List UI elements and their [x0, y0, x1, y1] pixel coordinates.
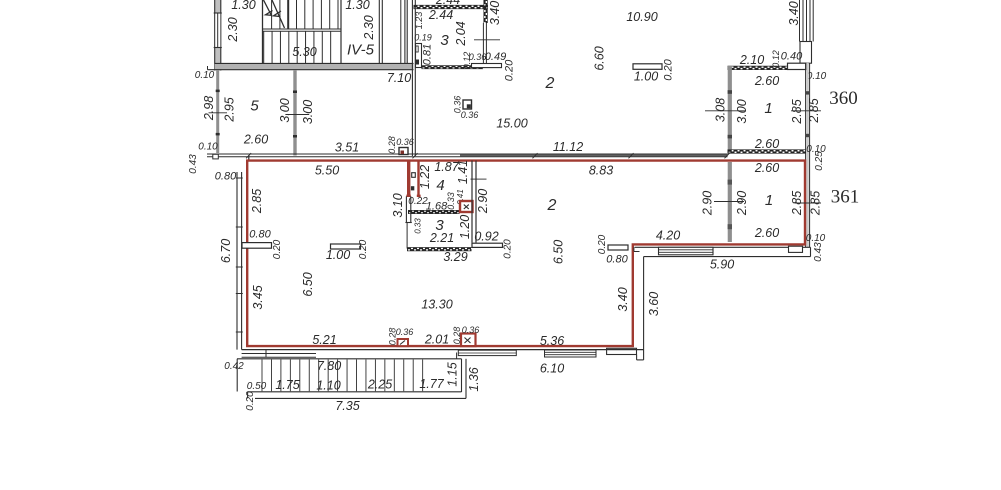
apt360 bottom hatched wall [728, 150, 807, 154]
dim 0.43 right [813, 242, 824, 262]
apt361 r1 leader left [714, 201, 744, 203]
svg-text:2.10: 2.10 [739, 53, 764, 67]
svg-text:5.90: 5.90 [710, 257, 734, 271]
window w5 [545, 350, 597, 357]
svg-text:0.33: 0.33 [446, 192, 456, 210]
svg-text:0.20: 0.20 [503, 59, 515, 81]
svg-text:2.44: 2.44 [435, 0, 460, 7]
wall pier P1 [242, 243, 272, 249]
dim 2.25 [367, 377, 392, 391]
stair direction arrow [264, 0, 285, 28]
svg-text:2.98: 2.98 [202, 96, 216, 121]
svg-text:1.00: 1.00 [326, 248, 350, 262]
dim 5.90 [710, 257, 734, 271]
svg-text:0.40: 0.40 [781, 50, 803, 62]
svg-text:2.01: 2.01 [424, 332, 449, 346]
dim 6.10 [540, 361, 564, 375]
room label 1 apt360 [764, 100, 772, 117]
dim 0.10 left upper [195, 70, 215, 81]
svg-text:2.85: 2.85 [808, 191, 822, 216]
room label 2 main [547, 197, 557, 214]
dim 2.04 [454, 21, 468, 46]
dim 1.15 [445, 362, 459, 386]
dim 3.60 [647, 292, 661, 316]
duct box in room3 [416, 44, 422, 68]
svg-text:7.35: 7.35 [335, 399, 359, 413]
room5 left wall [216, 70, 220, 153]
svg-text:7.80: 7.80 [317, 359, 341, 373]
svg-text:0.20: 0.20 [358, 239, 369, 259]
dim 0.20 P1 [272, 239, 283, 259]
svg-text:0.80: 0.80 [606, 253, 628, 265]
window w2 lower [789, 246, 803, 252]
dim 0.28 S1 [387, 136, 397, 154]
svg-text:360: 360 [829, 88, 858, 109]
dim 2.85 outer 361 [808, 191, 822, 216]
dim 0.33 small [414, 218, 423, 234]
dim 0.36 S1 [396, 137, 414, 147]
dim 5.36 [540, 334, 564, 348]
main wall under rooms [207, 153, 730, 158]
right lower outer wall vertical [643, 257, 645, 360]
svg-text:3.00: 3.00 [735, 99, 749, 123]
svg-text:13.30: 13.30 [421, 297, 452, 311]
svg-text:0.20: 0.20 [503, 239, 514, 259]
dim 1.75 [275, 378, 299, 392]
wall line below red [242, 349, 644, 351]
room label 1 apt361 [765, 192, 773, 209]
dim 1.30 stair right [345, 0, 369, 12]
svg-text:3.40: 3.40 [616, 287, 630, 311]
svg-text:2: 2 [547, 197, 557, 214]
room5 interior wall [293, 71, 297, 156]
dim 2.60 361 bottom [754, 226, 779, 240]
dim 0.81 [421, 44, 433, 65]
dim 6.60 [592, 46, 606, 70]
dim 0.80 window [249, 228, 271, 240]
dim 5.30 stairs [292, 45, 316, 59]
dim 3.00 right [301, 100, 315, 124]
svg-text:2.60: 2.60 [754, 161, 779, 175]
svg-text:0.36: 0.36 [462, 325, 480, 335]
red shaft square S3 [460, 201, 473, 212]
svg-text:2.85: 2.85 [790, 99, 804, 124]
svg-text:0.20: 0.20 [272, 239, 283, 259]
svg-text:6.50: 6.50 [301, 272, 315, 296]
svg-text:3.08: 3.08 [713, 98, 727, 122]
dim 0.19 [414, 32, 432, 42]
stair treads upper flight [272, 0, 338, 29]
svg-text:2.60: 2.60 [243, 132, 268, 146]
svg-text:361: 361 [831, 186, 860, 207]
dim 2.30 stair right [362, 15, 376, 40]
dim 1.68 [426, 200, 448, 212]
room label 4 [436, 177, 444, 194]
svg-text:0.50: 0.50 [247, 381, 267, 392]
room3 block top hatched wall [414, 5, 489, 9]
terrace left step [247, 392, 249, 399]
dim 1.36 [467, 367, 481, 391]
room3 block right wall [483, 0, 487, 65]
window sill w4 [457, 350, 517, 359]
dim 0.28 S4 [387, 328, 397, 346]
svg-text:6.50: 6.50 [551, 240, 565, 264]
door sensor mark lower [411, 186, 414, 190]
room label 5 [250, 97, 259, 114]
dim 0.33 room4 [446, 192, 456, 210]
shaft square S2 [463, 100, 472, 109]
dim 0.20 ledge [503, 59, 515, 81]
dim 6.70 [219, 239, 233, 263]
svg-text:2.21: 2.21 [429, 231, 454, 245]
svg-text:1: 1 [764, 100, 772, 117]
svg-text:1.30: 1.30 [231, 0, 255, 12]
svg-text:5.21: 5.21 [312, 333, 336, 347]
svg-text:2.95: 2.95 [222, 97, 236, 122]
svg-text:3.00: 3.00 [301, 100, 315, 124]
dim 2.44 room3 [428, 8, 453, 22]
wall between stairwell and corridor [379, 0, 382, 64]
dim 3.40 red wall [616, 287, 630, 311]
dim 1.77 [419, 377, 444, 391]
dim 1.30 stair left [231, 0, 255, 12]
dim 7.10 corridor [387, 71, 411, 85]
dim 3.45 [251, 285, 265, 309]
wall pier P3 [608, 245, 628, 250]
dim 3.40 top [488, 1, 502, 25]
dim 2.95 [222, 97, 236, 122]
room label 3 lower [435, 217, 444, 234]
dim 2.30 stair left [226, 17, 240, 42]
window w1 lower [659, 247, 714, 255]
svg-text:2.60: 2.60 [754, 137, 779, 151]
left band lines [242, 350, 316, 358]
svg-text:1.15: 1.15 [445, 362, 459, 386]
svg-text:5.50: 5.50 [315, 163, 339, 177]
svg-text:2.90: 2.90 [735, 191, 749, 216]
dim 0.36 S5 [462, 325, 480, 335]
dim 2.60 apt360 bottom [754, 137, 779, 151]
svg-text:1.23: 1.23 [414, 12, 424, 30]
svg-text:3.29: 3.29 [443, 250, 467, 264]
dim 0.12 top [771, 50, 781, 68]
wall pier top right [633, 64, 662, 70]
dim 2.85 outer 360 [807, 98, 821, 123]
dim 2.60 room5 [243, 132, 268, 146]
building corner bottom right [637, 355, 644, 360]
corridor shaft wall [401, 0, 407, 64]
dim 3.00 left [278, 98, 292, 122]
apt360 dim leader right [791, 110, 821, 112]
dim 0.22 [408, 196, 428, 207]
room3 bottom hatched wall [422, 66, 484, 69]
svg-text:10.90: 10.90 [626, 10, 657, 24]
svg-text:2.30: 2.30 [226, 17, 240, 42]
svg-text:6.70: 6.70 [219, 239, 233, 263]
dim 7.80 [317, 359, 341, 373]
stairwell right wall [340, 0, 342, 64]
svg-text:0.36: 0.36 [396, 137, 414, 147]
svg-text:3.40: 3.40 [488, 1, 502, 25]
dim 15.00 [496, 116, 527, 130]
dim 3.10 [391, 193, 405, 217]
dim 0.20 pier top [662, 58, 674, 80]
terrace top edge [237, 358, 462, 360]
dim 0.80 P3 [606, 253, 628, 265]
svg-text:1.10: 1.10 [316, 378, 340, 392]
apt360 dim leader left [705, 110, 746, 112]
staircase bottom wall [208, 63, 414, 69]
svg-text:2.30: 2.30 [362, 15, 376, 40]
apt360 left wall [728, 66, 732, 154]
dim 7.35 [335, 399, 359, 413]
dim 1.00 pier [634, 69, 658, 83]
dim 0.10 r1 [807, 71, 827, 82]
room4 room3 hatched wall [408, 210, 460, 213]
svg-text:8.83: 8.83 [589, 163, 613, 177]
lower wall left step [634, 247, 640, 251]
svg-text:0.92: 0.92 [474, 229, 498, 243]
svg-text:2: 2 [545, 75, 555, 92]
svg-text:0.43: 0.43 [188, 154, 199, 174]
room label 2 upper [545, 75, 555, 92]
dim 0.36 room3 [469, 52, 487, 62]
svg-text:0.10: 0.10 [195, 70, 215, 81]
svg-text:0.20: 0.20 [597, 234, 608, 254]
top right shaft [800, 0, 814, 63]
svg-text:3: 3 [440, 32, 449, 49]
dim 1.22 [418, 165, 432, 189]
svg-text:5: 5 [250, 97, 259, 114]
ledge under room3 [472, 64, 502, 68]
svg-text:1.22: 1.22 [418, 165, 432, 189]
svg-text:0.36: 0.36 [396, 327, 414, 337]
svg-text:2.90: 2.90 [476, 189, 490, 214]
room label 3 upper [440, 32, 449, 49]
dim 2.85 inner 361 [790, 191, 804, 216]
dim 3.08 [713, 98, 727, 122]
right outer wall [805, 63, 810, 248]
terrace inner bottom [248, 391, 462, 393]
svg-text:5.30: 5.30 [292, 45, 316, 59]
svg-text:0.19: 0.19 [414, 32, 432, 42]
window w3 corner [607, 348, 637, 354]
label IV-5 staircase [347, 41, 375, 58]
dim 0.92 [474, 229, 498, 243]
dim 3.51 [335, 140, 359, 154]
dim 0.49 ledge [485, 51, 506, 63]
svg-text:3.51: 3.51 [335, 140, 359, 154]
dim 0.10 r2 [806, 144, 826, 155]
dim 2.85 inner 360 [790, 99, 804, 124]
svg-text:4: 4 [436, 177, 444, 194]
dim 0.40 [781, 50, 803, 62]
shaft square S1 [399, 148, 408, 155]
dim 0.36 S2 below [461, 110, 479, 120]
svg-text:1.41: 1.41 [456, 160, 470, 184]
dim 0.20 terrace [245, 391, 256, 411]
dim 0.10 room5 [198, 142, 218, 153]
terrace outer bottom [255, 397, 466, 399]
dim 0.12 room3 [462, 52, 472, 70]
red apartment outline [247, 161, 805, 347]
dim 0.41 [456, 189, 465, 205]
apt361 r1 leader right [795, 202, 821, 204]
svg-text:0.20: 0.20 [662, 58, 674, 80]
dim 0.20 P2 [358, 239, 369, 259]
wall stub below notch [405, 196, 411, 248]
svg-text:1.30: 1.30 [345, 0, 369, 12]
apt number 360 [829, 88, 858, 109]
dim 2.90 room4 [476, 189, 490, 214]
dim 1.00 P2 [326, 248, 350, 262]
dim 0.42 [224, 361, 244, 372]
svg-text:2.90: 2.90 [700, 191, 714, 216]
dim 5.21 [312, 333, 336, 347]
terrace left edge [236, 359, 238, 392]
wall right of room3 [472, 161, 476, 243]
terrace hatch lines [262, 360, 423, 392]
svg-text:1.77: 1.77 [419, 377, 444, 391]
room5 wall leader [285, 114, 309, 116]
dim 0.80 top left [215, 170, 237, 182]
dim 0.10 r3 [806, 233, 826, 244]
dim 0.36 S2 left [452, 96, 462, 114]
dim 0.43 left step [188, 154, 199, 174]
svg-text:0.36: 0.36 [469, 52, 487, 62]
dim 3.00 apt360 [735, 99, 749, 123]
dim 1.41 [456, 160, 470, 184]
leader 1.41 [471, 178, 487, 180]
terrace right outer edge [465, 359, 467, 399]
dim 2.60 apt360 top [754, 74, 779, 88]
dim 2.98 [202, 96, 216, 121]
svg-text:3.60: 3.60 [647, 292, 661, 316]
svg-text:2.85: 2.85 [807, 98, 821, 123]
svg-text:2.04: 2.04 [454, 21, 468, 46]
dim 6.50 left [301, 272, 315, 296]
dim 2.10 [739, 53, 764, 67]
red shaft square S5 [461, 334, 476, 347]
dim 2.90 right [735, 191, 749, 216]
svg-text:3.00: 3.00 [278, 98, 292, 122]
dim 3.40 shaft [787, 1, 801, 25]
svg-text:0.80: 0.80 [215, 170, 237, 182]
dim 2.90 left [700, 191, 714, 216]
svg-text:0.33: 0.33 [414, 218, 423, 234]
dim 0.25 red right [814, 151, 825, 171]
svg-text:3.45: 3.45 [251, 285, 265, 309]
svg-text:6.10: 6.10 [540, 361, 564, 375]
dim 3.29 [443, 250, 467, 264]
svg-text:5.36: 5.36 [540, 334, 564, 348]
stair treads lower flight [264, 31, 331, 63]
svg-text:0.80: 0.80 [249, 228, 271, 240]
room5 dim leader [209, 112, 228, 114]
dim 2.60 361 top [754, 161, 779, 175]
room3 leader line [474, 39, 500, 41]
dim 2.01 [424, 332, 449, 346]
lower right outer wall [635, 247, 811, 256]
wall pier P2 [331, 244, 361, 249]
dim 1.20 [458, 215, 472, 239]
svg-text:0.81: 0.81 [421, 44, 433, 65]
svg-text:0.28: 0.28 [452, 327, 462, 345]
svg-text:6.60: 6.60 [592, 46, 606, 70]
dim 8.83 [589, 163, 613, 177]
svg-text:1.20: 1.20 [458, 215, 472, 239]
dim 5.50 [315, 163, 339, 177]
dim 1.10 [316, 378, 340, 392]
svg-text:2.60: 2.60 [754, 74, 779, 88]
svg-text:3.40: 3.40 [787, 1, 801, 25]
apt360 top hatched wall [728, 66, 789, 70]
ledge under room3 lower [472, 243, 503, 247]
door sensor mark upper [412, 173, 416, 178]
dim 4.20 [656, 228, 680, 242]
dim 0.28 S5 [452, 327, 462, 345]
svg-text:0.42: 0.42 [224, 361, 244, 372]
dim 2.21 [429, 231, 454, 245]
red corner connector tick [248, 155, 250, 160]
svg-text:4.20: 4.20 [656, 228, 680, 242]
svg-text:1.36: 1.36 [467, 367, 481, 391]
svg-text:1: 1 [765, 192, 773, 209]
red entry notch [406, 161, 420, 196]
dim 1.87 [434, 160, 459, 174]
dim 2.85 left [250, 189, 264, 214]
wall step notch left [213, 154, 219, 159]
svg-text:3.10: 3.10 [391, 193, 405, 217]
dim 0.50 [247, 381, 267, 392]
svg-text:2.85: 2.85 [250, 189, 264, 214]
svg-text:0.20: 0.20 [245, 391, 256, 411]
left outer wall [236, 172, 243, 350]
dim 0.36 S4 [396, 327, 414, 337]
svg-text:0.25: 0.25 [814, 151, 825, 171]
stair enclosure left wall [262, 0, 264, 64]
apt360 window top [788, 63, 806, 69]
apt361 interior wall [728, 162, 732, 242]
svg-text:15.00: 15.00 [496, 116, 527, 130]
stair landing lines [263, 29, 342, 31]
dim 1.23 [414, 12, 424, 30]
room3 bottom hatched wall lower [407, 248, 472, 251]
apt number 361 [831, 186, 860, 207]
svg-text:1.75: 1.75 [275, 378, 299, 392]
svg-text:0.10: 0.10 [198, 142, 218, 153]
dim 11.12 [553, 140, 583, 154]
svg-text:0.36: 0.36 [461, 110, 479, 120]
svg-text:11.12: 11.12 [553, 140, 583, 154]
dim 13.30 [421, 297, 452, 311]
svg-text:2.25: 2.25 [367, 377, 392, 391]
svg-text:0.12: 0.12 [771, 50, 781, 68]
red shaft square S4 [398, 339, 409, 346]
svg-text:1.00: 1.00 [634, 69, 658, 83]
svg-text:0.43: 0.43 [813, 242, 824, 262]
dim 2.44 top cut [435, 0, 460, 7]
staircase left wall [214, 0, 222, 71]
dim 6.50 mid [551, 240, 565, 264]
terrace right inner edge [461, 359, 463, 392]
svg-text:2.44: 2.44 [428, 8, 453, 22]
svg-text:2.85: 2.85 [790, 191, 804, 216]
svg-text:7.10: 7.10 [387, 71, 411, 85]
dim 0.20 ledge lower [503, 239, 514, 259]
svg-text:2.60: 2.60 [754, 226, 779, 240]
dim 0.20 P3 [597, 234, 608, 254]
